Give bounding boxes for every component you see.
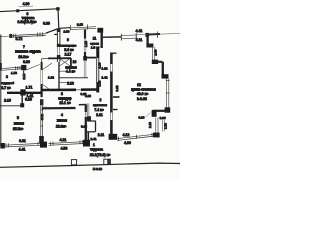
svg-text:1.50: 1.50	[164, 123, 168, 129]
svg-text:гардероб: гардероб	[1, 81, 14, 85]
svg-text:0.30: 0.30	[85, 94, 91, 98]
svg-text:4.41: 4.41	[136, 29, 143, 33]
corner block	[152, 60, 158, 64]
wall stub left of stairs	[54, 57, 58, 59]
svg-text:13.0м²: 13.0м²	[56, 124, 67, 128]
window dining east 2	[166, 79, 168, 108]
wall room9 west x58.6	[56, 29, 58, 48]
svg-text:3.6к(12.0)м²: 3.6к(12.0)м²	[18, 20, 38, 24]
svg-text:4: 4	[61, 113, 63, 117]
wall canted corner terrace-8	[46, 29, 59, 34]
wall between room9 and room11	[84, 30, 86, 39]
svg-text:12.1 м²: 12.1 м²	[59, 101, 71, 105]
ground line	[0, 163, 180, 167]
svg-text:2.10: 2.10	[4, 98, 11, 102]
window room4 south	[49, 142, 84, 144]
svg-text:10: 10	[73, 60, 77, 64]
svg-text:2: 2	[100, 98, 102, 102]
svg-text:помещение: помещение	[60, 44, 77, 48]
window dining east 1	[152, 47, 154, 60]
door jamb x23.5	[23, 71, 25, 78]
wall terrace-8 top edge	[0, 9, 58, 12]
svg-text:22.1(73.0) м²: 22.1(73.0) м²	[90, 153, 111, 157]
wall sauna-block top	[59, 27, 71, 30]
svg-text:1.30: 1.30	[97, 80, 101, 86]
svg-text:жилая: жилая	[57, 119, 67, 123]
window room7 south	[0, 67, 22, 69]
svg-text:7: 7	[23, 45, 25, 49]
svg-text:18.3м²: 18.3м²	[18, 55, 29, 59]
svg-text:1.42: 1.42	[101, 75, 107, 79]
dim line to right edge	[137, 34, 180, 35]
door swing room9	[42, 63, 52, 70]
svg-text:1.9 м²: 1.9 м²	[91, 46, 99, 50]
wall dining south	[153, 110, 168, 112]
window porch	[121, 34, 137, 37]
wall room4 east	[85, 105, 87, 112]
svg-text:8.7 м²: 8.7 м²	[1, 86, 11, 90]
svg-text:2.11: 2.11	[98, 133, 105, 137]
wall stub corridor/room2	[79, 104, 87, 106]
dimension tick line under 4.30	[19, 5, 34, 8]
svg-text:2.41: 2.41	[90, 137, 96, 141]
door swing room7	[27, 64, 40, 69]
svg-text:3.81: 3.81	[19, 139, 26, 143]
svg-text:4.12: 4.12	[123, 133, 130, 137]
wall terrace-8 right edge	[57, 9, 60, 28]
svg-text:4.4 м²: 4.4 м²	[66, 70, 76, 74]
svg-text:15.5м²: 15.5м²	[13, 127, 24, 131]
corner block kitchen NW	[97, 28, 103, 33]
svg-text:комната отдыха: комната отдыха	[15, 49, 40, 53]
svg-text:7.4 м²: 7.4 м²	[94, 108, 104, 112]
svg-text:Н-0.83: Н-0.83	[93, 167, 103, 171]
door swing X	[60, 59, 71, 67]
svg-text:40.9 м²: 40.9 м²	[137, 92, 149, 96]
niche walls room2 SW	[88, 120, 96, 122]
svg-text:2.60: 2.60	[154, 49, 158, 55]
window stair east	[155, 118, 157, 134]
svg-text:1.12: 1.12	[101, 66, 107, 70]
svg-text:1: 1	[93, 143, 95, 147]
window room5 south	[0, 143, 5, 149]
wall dining north	[146, 33, 160, 36]
wall step east	[152, 61, 163, 63]
svg-text:4.41: 4.41	[19, 148, 26, 152]
svg-text:коридор: коридор	[58, 96, 71, 100]
svg-text:5.6 м²: 5.6 м²	[64, 48, 74, 52]
svg-text:0.90: 0.90	[160, 116, 166, 120]
window sauna-block top	[70, 27, 96, 28]
svg-text:12: 12	[137, 83, 141, 87]
wall room6 south	[7, 92, 42, 94]
corner block SE room4	[83, 140, 90, 147]
svg-text:0.30: 0.30	[23, 60, 30, 64]
svg-text:2.11: 2.11	[96, 113, 103, 117]
svg-text:жилая: жилая	[14, 122, 24, 126]
wall room7 east / sauna west	[41, 59, 43, 63]
hatch marks corridor wall	[44, 106, 47, 110]
svg-text:2.30: 2.30	[63, 30, 69, 34]
door swing lower	[42, 84, 51, 91]
svg-text:0.30: 0.30	[25, 98, 32, 102]
svg-text:прихожая: прихожая	[93, 103, 107, 107]
wall house west	[0, 35, 2, 147]
svg-text:4.21: 4.21	[60, 138, 67, 142]
closet bottom wall	[0, 105, 21, 107]
wall sauna interior y58	[42, 57, 48, 59]
wall corridor north	[42, 89, 76, 92]
svg-text:5.72: 5.72	[16, 37, 23, 41]
corner block room7 SE	[21, 65, 26, 70]
window wall room-7 north	[0, 35, 10, 38]
svg-text:0.30: 0.30	[43, 21, 50, 25]
svg-text:4.50: 4.50	[61, 147, 68, 151]
svg-text:1.30: 1.30	[98, 62, 102, 68]
svg-text:11: 11	[93, 37, 97, 41]
svg-text:5: 5	[17, 116, 19, 120]
svg-text:0.30: 0.30	[138, 116, 144, 120]
step marker B	[104, 159, 111, 164]
svg-text:кухня-столовая: кухня-столовая	[131, 88, 156, 92]
wall porch north	[103, 36, 121, 38]
svg-text:5.72: 5.72	[40, 114, 44, 120]
wall sauna east (jog)	[96, 48, 98, 93]
wall corridor south	[42, 107, 76, 110]
door jambs room2 west	[86, 103, 88, 116]
svg-text:1.62: 1.62	[48, 75, 54, 79]
step marker A	[71, 160, 76, 165]
svg-text:1.71: 1.71	[26, 86, 33, 90]
wall stairs west	[58, 62, 60, 90]
svg-text:2.17: 2.17	[65, 52, 72, 56]
post right terrace-8	[56, 7, 59, 10]
wall hall/dining west bar	[110, 53, 113, 65]
wall dining east upper	[146, 35, 148, 46]
window terrace1 north	[117, 134, 155, 138]
svg-text:0.12: 0.12	[115, 85, 119, 91]
svg-text:0.20: 0.20	[81, 124, 87, 128]
svg-text:h-3.83: h-3.83	[137, 97, 147, 101]
svg-text:2.10: 2.10	[67, 82, 74, 86]
svg-text:5.12: 5.12	[77, 22, 84, 26]
wall stub vertical x71	[70, 58, 72, 66]
svg-text:4.11: 4.11	[136, 38, 143, 42]
window band wall rooms 5/4	[40, 99, 43, 105]
wall stub left of x58.6	[54, 33, 57, 35]
svg-text:6: 6	[6, 75, 8, 79]
svg-text:2.10: 2.10	[148, 122, 152, 128]
svg-text:1.36: 1.36	[84, 41, 88, 47]
svg-text:1.50: 1.50	[11, 71, 17, 75]
wall kitchen west upper	[100, 31, 102, 48]
stair treads	[60, 70, 67, 72]
svg-text:4.30: 4.30	[23, 2, 30, 6]
svg-text:9: 9	[67, 38, 69, 42]
closet right wall	[21, 96, 23, 106]
svg-text:4.99: 4.99	[124, 141, 131, 145]
post left terrace-8	[16, 9, 19, 12]
svg-text:терраса: терраса	[90, 148, 103, 152]
pier block	[40, 142, 47, 148]
wall sauna interior right y58	[84, 57, 96, 59]
